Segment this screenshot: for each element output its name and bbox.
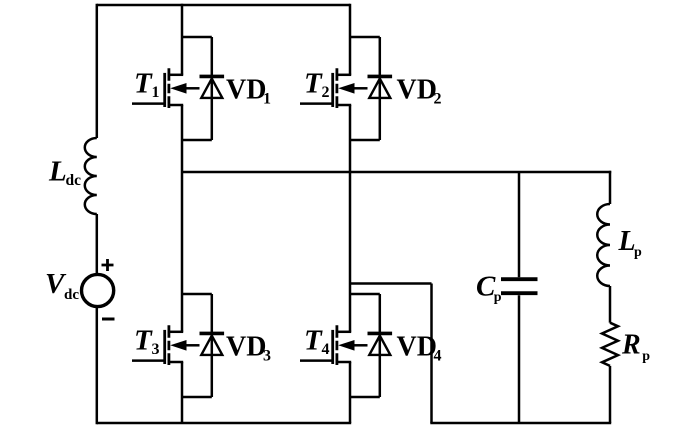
wire diode VD4 loop top [350,293,380,296]
svg-text:dc: dc [66,172,82,189]
diode VD4 cathode bar [368,332,393,336]
wire bottom rail right segment [430,422,611,425]
wire left leg between mid node and T3 drain [181,172,184,332]
svg-text:p: p [634,245,642,260]
wire node M2 vertical drop [430,284,433,424]
diode VD2 cathode bar [368,75,393,79]
source Vdc circle [82,274,114,306]
svg-text:VD: VD [226,332,266,363]
wire left rail middle [96,214,99,274]
diode VD2 triangle [369,79,390,98]
wire left rail lower [96,307,99,424]
svg-text:VD: VD [226,75,266,106]
wire right branch bottom lead [609,366,612,423]
transistor T2 drain stub [336,74,352,77]
wire diode VD3 loop top [182,293,212,296]
svg-text:p: p [642,349,650,364]
wire node M2 horizontal tap [350,282,432,285]
transistor T1 gate lead [132,102,165,105]
inductor Lp [597,204,610,286]
transistor T4 gate lead [300,359,333,362]
wire right leg between T2 source and T4 drain [349,105,352,332]
transistor T4 drain stub [336,331,352,334]
transistor T2 channel dashes [335,68,338,108]
wire right leg bottom (T4 source to bottom rail) [349,362,352,423]
wire left rail upper [96,4,99,138]
transistor T1 drain stub [168,74,184,77]
diode VD4 triangle [369,336,390,355]
transistor T3 body arrow [185,344,200,347]
diode VD2 vertical wire [379,37,382,140]
transistor T1 channel dashes [167,68,170,108]
transistor T3 source stub [168,361,184,364]
transistor T3 gate bar [163,330,166,364]
transistor T1 body arrow [185,87,200,90]
svg-text:L: L [48,156,67,188]
wire diode VD3 loop bottom [182,396,212,399]
wire Cp top lead [518,172,521,277]
svg-text:4: 4 [434,348,442,365]
svg-text:R: R [621,330,641,361]
transistor T4 channel dashes [335,325,338,365]
svg-text:T: T [304,325,323,357]
transistor T1 gate bar [163,73,166,107]
transistor T3 channel dashes [167,325,170,365]
plus sign [102,259,114,271]
transistor T3 drain stub [168,331,184,334]
svg-text:1: 1 [263,91,271,108]
wire diode VD1 loop bottom [182,139,212,142]
transistor T4 source stub [336,361,352,364]
svg-text:L: L [618,226,636,257]
wire diode VD2 loop top [350,36,380,39]
transistor T2 gate bar [331,73,334,107]
diode VD3 triangle [201,336,222,355]
svg-text:VD: VD [397,75,437,106]
resistor Rp zigzag [602,323,618,366]
svg-text:4: 4 [322,341,330,358]
capacitor Cp plates [501,279,538,293]
svg-text:T: T [134,325,153,357]
wire bottom rail left segment [97,422,351,425]
transistor T1 source stub [168,104,184,107]
diode VD3 cathode bar [200,332,225,336]
svg-text:T: T [134,68,153,100]
transistor T4 body arrow [353,344,368,347]
svg-text:T: T [304,68,323,100]
transistor T2 source stub [336,104,352,107]
inductor Ldc [85,138,97,214]
transistor T3 gate lead [132,359,165,362]
svg-text:dc: dc [64,287,79,303]
wire left leg top (drain T1) [181,4,184,75]
svg-text:2: 2 [434,91,442,108]
svg-text:p: p [494,290,502,305]
transistor T2 gate lead [300,102,333,105]
svg-text:3: 3 [152,341,160,358]
svg-text:1: 1 [152,84,160,101]
minus sign [102,318,115,321]
diode VD1 vertical wire [211,37,214,140]
diode VD1 cathode bar [200,75,225,79]
svg-text:3: 3 [263,348,271,365]
transistor T2 body arrow [353,87,368,90]
diode VD4 vertical wire [379,294,382,397]
wire top rail [97,4,350,7]
wire diode VD2 loop bottom [350,139,380,142]
wire diode VD4 loop bottom [350,396,380,399]
wire left leg bottom (T3 source to bottom rail) [181,362,184,423]
wire right branch top lead [609,171,612,204]
wire left leg between T1 source and mid node [181,105,184,172]
diode VD1 triangle [201,79,222,98]
diode VD3 vertical wire [211,294,214,397]
transistor T4 gate bar [331,330,334,364]
wire between Lp and Rp [609,286,612,323]
wire Cp bottom lead [518,295,521,423]
wire output mid line (node M1) [182,171,611,174]
svg-text:2: 2 [322,84,330,101]
wire right leg top (drain T2) [349,4,352,75]
wire diode VD1 loop top [182,36,212,39]
